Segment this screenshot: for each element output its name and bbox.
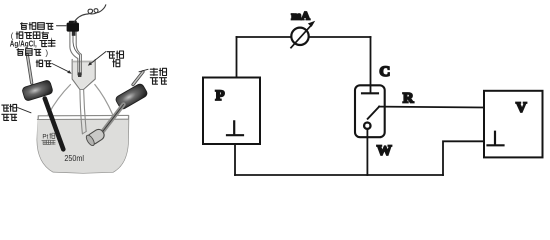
wire: top rail from P to cell C [237, 36, 371, 38]
electrode bead below cap [72, 31, 76, 36]
beaker (250ml) [37, 116, 128, 173]
svg-text:W: W [377, 143, 392, 159]
milliammeter mA [291, 28, 308, 45]
voltmeter box V [484, 91, 543, 158]
label: 参比电极 (reference electrode) [21, 23, 28, 30]
svg-text:Pt: Pt [42, 134, 48, 141]
wire: C lead down into cell [370, 37, 372, 93]
pivot circle (W electrode) [364, 123, 370, 129]
cell cone left edge [48, 85, 71, 115]
curly lead wire [74, 5, 106, 23]
beaker back rim line [38, 114, 128, 116]
working electrode roller tip [85, 127, 107, 147]
svg-text:250ml: 250ml [64, 154, 84, 163]
switch arm to R [368, 107, 380, 119]
svg-text:Ag/AgCl,: Ag/AgCl, [10, 40, 37, 49]
label: 氢电极） line [17, 49, 24, 56]
svg-text:): ) [45, 48, 48, 57]
wire: bottom rail up to V lower terminal [443, 141, 484, 175]
ground symbol in V [488, 132, 504, 146]
wire: W lead down [366, 130, 368, 176]
label: 盐桥 (salt bridge) [36, 60, 42, 66]
wire: bottom rail [235, 174, 443, 176]
salt bridge leader arrow [52, 64, 70, 73]
auxiliary electrode rod (Pt/graphite) [45, 99, 64, 150]
label: 电解/液 (electrolyte) [107, 52, 114, 59]
cell cone right edge [95, 85, 113, 115]
auxiliary electrode leader [18, 108, 31, 113]
svg-text:V: V [516, 100, 527, 116]
electrode tip square in vessel [78, 72, 81, 77]
working electrode leader dash [139, 69, 148, 72]
meter needle arrow [291, 25, 312, 48]
reference electrode glass tube [70, 31, 78, 75]
electrochemical cell box [355, 85, 385, 137]
svg-text:mA: mA [291, 8, 310, 22]
wire: left vertical into P [236, 37, 238, 78]
liquid surface line [37, 118, 128, 120]
svg-text:R: R [403, 91, 414, 107]
svg-text:C: C [379, 64, 390, 80]
label: 辅助/电极 (auxiliary electrode) [2, 105, 9, 111]
working electrode top rod [133, 72, 143, 85]
potentiostat box P [203, 78, 260, 145]
working electrode grip [115, 83, 149, 111]
wire: R to voltmeter [379, 106, 484, 109]
salt-bridge funnel tube [80, 89, 83, 134]
glass cell vessel [72, 60, 95, 90]
working electrode shaft [102, 105, 124, 134]
leader dash [57, 25, 67, 27]
reference electrode cap [67, 23, 79, 32]
label: 工作/电极 (working electrode) [150, 68, 157, 75]
vessel rim [72, 61, 95, 63]
ground symbol in P [227, 121, 243, 135]
wire: P bottom down [234, 144, 236, 175]
electrolyte leader arrow [90, 52, 106, 65]
C electrode bar [362, 92, 378, 94]
auxiliary electrode top rod [27, 55, 31, 83]
svg-text:P: P [215, 88, 224, 104]
liquid / electrolyte fill [37, 119, 128, 173]
inner electrode wire [73, 31, 80, 72]
auxiliary electrode grip [22, 80, 54, 102]
